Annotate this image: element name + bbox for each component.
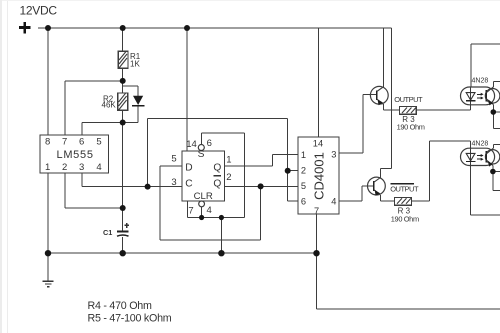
svg-text:46K: 46K bbox=[102, 101, 117, 110]
svg-text:1: 1 bbox=[226, 155, 231, 166]
svg-text:3: 3 bbox=[331, 149, 336, 159]
svg-text:3: 3 bbox=[79, 162, 84, 173]
svg-text:Q: Q bbox=[213, 179, 221, 190]
svg-text:7: 7 bbox=[62, 137, 67, 148]
svg-text:7: 7 bbox=[188, 206, 193, 217]
svg-text:R5 - 47-100 kOhm: R5 - 47-100 kOhm bbox=[88, 313, 172, 325]
svg-text:14: 14 bbox=[186, 139, 197, 150]
svg-text:7: 7 bbox=[314, 206, 319, 216]
svg-text:C: C bbox=[185, 179, 192, 190]
svg-text:OUTPUT: OUTPUT bbox=[394, 95, 423, 104]
svg-text:2: 2 bbox=[62, 162, 67, 173]
svg-text:8: 8 bbox=[45, 137, 50, 148]
svg-text:4: 4 bbox=[331, 197, 336, 207]
svg-text:5: 5 bbox=[96, 137, 101, 148]
svg-text:190 Ohm: 190 Ohm bbox=[391, 214, 419, 223]
svg-text:OUTPUT: OUTPUT bbox=[390, 185, 419, 194]
svg-text:S: S bbox=[198, 149, 205, 160]
svg-text:6: 6 bbox=[207, 138, 212, 149]
svg-text:D: D bbox=[185, 162, 192, 173]
svg-text:LM555: LM555 bbox=[57, 149, 94, 161]
svg-text:1K: 1K bbox=[130, 60, 140, 69]
svg-text:4N28: 4N28 bbox=[472, 141, 489, 148]
svg-text:R4 - 470 Ohm: R4 - 470 Ohm bbox=[88, 300, 152, 312]
svg-text:C1: C1 bbox=[103, 228, 112, 237]
svg-text:6: 6 bbox=[79, 137, 84, 148]
svg-text:12VDC: 12VDC bbox=[20, 4, 58, 18]
svg-text:4: 4 bbox=[96, 162, 101, 173]
svg-text:190 Ohm: 190 Ohm bbox=[397, 123, 425, 132]
svg-text:5: 5 bbox=[171, 154, 176, 165]
svg-text:2: 2 bbox=[226, 172, 231, 183]
svg-text:4N28: 4N28 bbox=[472, 78, 489, 85]
svg-text:5: 5 bbox=[301, 181, 306, 191]
svg-text:CLR: CLR bbox=[194, 191, 213, 202]
svg-text:4: 4 bbox=[207, 205, 212, 216]
svg-text:14: 14 bbox=[313, 138, 323, 148]
svg-text:1: 1 bbox=[45, 162, 50, 173]
svg-text:6: 6 bbox=[301, 197, 306, 207]
svg-text:Q: Q bbox=[213, 162, 221, 173]
svg-text:2: 2 bbox=[301, 166, 306, 176]
svg-text:CD4001: CD4001 bbox=[311, 152, 326, 200]
svg-text:3: 3 bbox=[171, 177, 176, 188]
svg-text:1: 1 bbox=[301, 150, 306, 160]
